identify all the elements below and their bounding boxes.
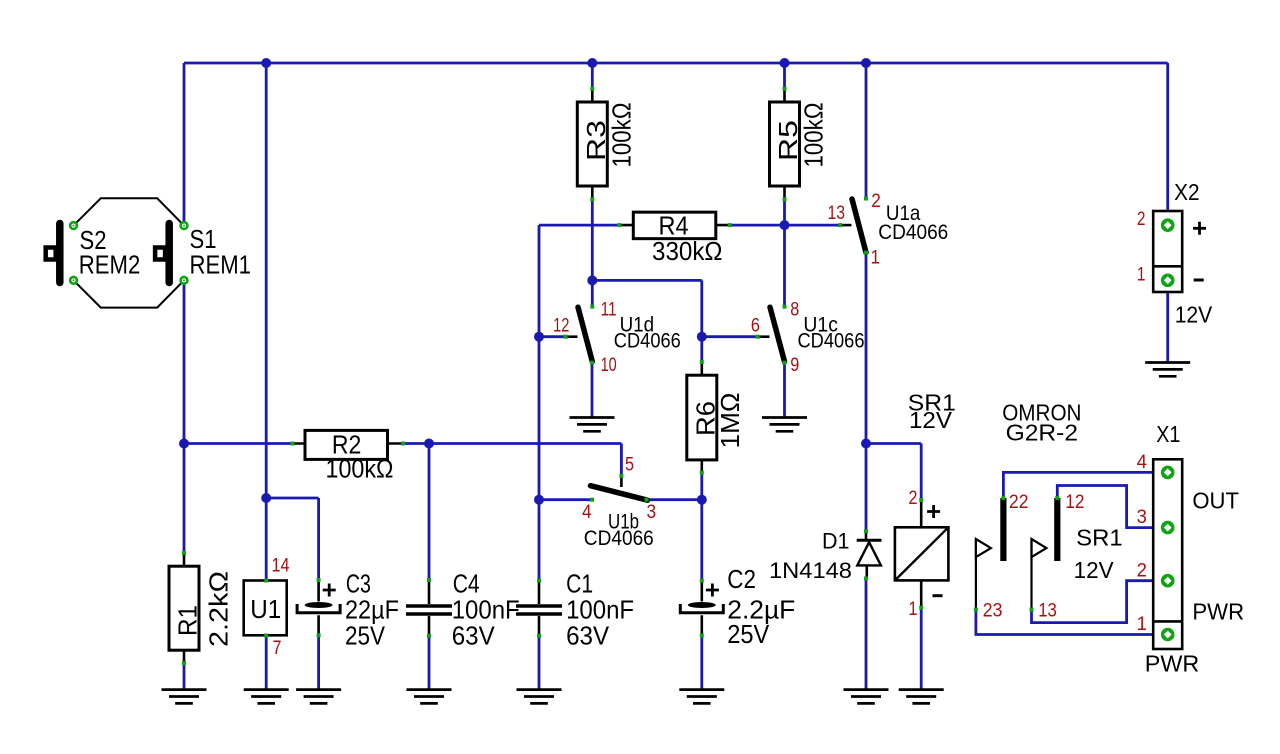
resistor R2 body [305,430,388,459]
resistor R3 body [577,102,607,186]
pin X1.1 [1161,628,1175,642]
polarity minus SR1 [933,594,943,597]
connector X2 body [1153,211,1182,292]
svg-text:4: 4 [582,502,592,523]
svg-text:100kΩ: 100kΩ [799,103,829,168]
svg-text:12V: 12V [909,407,953,433]
svg-text:1MΩ: 1MΩ [715,393,745,449]
pin R4.2 [728,223,732,227]
svg-text:CD4066: CD4066 [614,329,681,353]
svg-text:23: 23 [983,601,1003,622]
svg-text:REM2: REM2 [79,250,141,280]
switch S2 actuator [56,224,64,283]
pin U1b.3 mark [645,498,649,502]
polarity minus X2 [1194,279,1204,282]
node bus-U1a junction [861,58,871,68]
node R6-top junction [697,332,707,342]
node R2-left junction [179,439,189,449]
ground C2 [679,690,724,704]
wire relay pole 13 to X1 pin2 [1032,581,1166,623]
pin D1.A mark [864,576,868,580]
pin X1.2 [1161,574,1175,588]
svg-text:330kΩ: 330kΩ [652,236,723,266]
diode D1 [857,539,882,542]
pin R5.1 [783,87,787,91]
resistor R6 body [687,375,717,460]
pin U1d.10 mark [590,361,594,365]
svg-text:25V: 25V [727,619,770,649]
svg-text:3: 3 [647,502,657,523]
wire relay contact 22 to X1 pin4 [1003,472,1165,498]
wire relay pole 23 to X1 pin1 [976,610,1165,635]
pin SR1.1 mark [919,606,923,610]
pin U1d.12 mark [564,335,568,339]
analog switch U1b [591,486,648,501]
wire R4 row from C1 column [539,225,619,580]
pin C2.+ [700,579,704,583]
svg-text:X2: X2 [1174,179,1199,205]
wire C3 to ground [317,635,320,690]
svg-text:1: 1 [909,599,918,620]
node R6/C2 junction [697,495,707,505]
svg-text:CD4066: CD4066 [584,526,654,550]
wire U1c pin9 to ground [783,363,786,418]
svg-text:11: 11 [601,299,617,320]
wire C1 to ground [538,636,541,690]
svg-text:12V: 12V [1074,557,1115,583]
svg-text:CD4066: CD4066 [878,220,948,244]
pin R1.1 [182,551,186,555]
pin C4.1 [427,578,431,582]
pin U1c.9 mark [783,361,787,365]
svg-text:25V: 25V [345,621,386,651]
svg-text:2: 2 [871,191,881,212]
wire X2 pin1 to ground [1166,280,1169,362]
ground SR1 [899,690,944,704]
wire R4 right to R5 bottom and U1a pin13 [730,199,841,306]
relay pole 23 [976,539,991,557]
svg-text:63V: 63V [452,621,496,651]
svg-text:CD4066: CD4066 [798,329,865,353]
svg-text:12: 12 [1065,492,1084,513]
wire U1b pin3 to R6/C2 column [647,473,702,581]
pin C4.2 [427,634,431,638]
node C3/U1 junction [261,493,271,503]
ground R1 [162,690,207,704]
ground D1 [844,690,889,704]
pin U1b.4 mark [590,498,594,502]
svg-text:100kΩ: 100kΩ [326,454,394,484]
pin R5.2 [783,197,787,201]
relay coil SR1 [895,527,949,580]
pin U1a.13 mark [838,223,842,227]
svg-text:2.2kΩ: 2.2kΩ [204,571,234,647]
svg-text:10: 10 [601,355,617,376]
svg-text:SR1: SR1 [1076,525,1123,551]
svg-text:14: 14 [272,556,290,577]
node bus-R3 junction [587,58,597,68]
wire S1 pin1 to bus [183,63,186,226]
pin U1.7 [264,634,268,638]
svg-text:13: 13 [1038,601,1057,622]
resistor R5 body [770,102,800,186]
ground X2 [1145,363,1190,377]
wire D1 to ground [865,578,868,690]
resistor R4 body [633,212,716,239]
pin X2.2 [1161,218,1175,232]
pin D1.C mark [864,529,868,533]
wire R3 bottom down and across to R6 column [592,199,702,362]
svg-text:X1: X1 [1156,421,1180,447]
pin R3.2 [590,197,594,201]
svg-text:2: 2 [909,488,918,509]
svg-text:G2R-2: G2R-2 [1006,420,1078,446]
polarity plus C3 [323,584,336,597]
analog switch U1a [852,199,866,252]
pin X1.4 [1161,466,1175,480]
pin X2.1 [1161,274,1175,288]
wire bus to U1a pin2 [865,63,868,199]
svg-text:REM1: REM1 [190,250,252,280]
relay contact bar 12 [1054,498,1060,561]
wire SR1 pin1 to ground [920,608,923,690]
pin U1d.11 mark [590,305,594,309]
svg-text:100kΩ: 100kΩ [607,103,637,168]
capacitor C4 body [406,606,452,614]
wire R1 to ground [183,663,186,690]
svg-text:9: 9 [790,355,799,376]
svg-text:6: 6 [751,316,760,337]
svg-text:R1: R1 [173,605,203,636]
pin S2.1 [70,222,77,229]
resistor R1 body [169,566,199,650]
pin C2.- [700,634,704,638]
capacitor C2 body [688,602,716,608]
svg-text:12V: 12V [1175,301,1213,327]
svg-text:22: 22 [1009,492,1028,513]
svg-text:5: 5 [625,455,634,476]
wire bus to X2 pin2 [1166,63,1169,225]
wire C3/U1 node [266,498,318,581]
switch S2/S1 octagon outline [74,198,185,307]
svg-text:1: 1 [1137,614,1147,635]
ground U1d [570,418,615,432]
node R4/R5 junction [780,220,790,230]
svg-text:7: 7 [273,638,282,659]
svg-text:2: 2 [1137,209,1146,230]
pin C1.1 [537,579,541,583]
switch S1 actuator [165,224,173,283]
svg-text:2: 2 [1137,561,1147,582]
wire C4 to ground [428,636,431,690]
pin 23 mark [974,608,978,612]
wire U1d pin10 to ground [591,363,594,418]
pin R2.1 [291,442,295,446]
pin R4.1 [617,223,621,227]
pin U1b.5 mark [619,474,623,478]
pin SR1.2 mark [919,498,923,502]
svg-text:63V: 63V [566,621,610,651]
capacitor C3 body [305,602,333,608]
node C1/U1b junction [534,495,544,505]
polarity plus C2 [706,584,719,597]
relay contact bar 22 [1000,498,1006,561]
wire U1 pin7 to ground [265,636,268,691]
wire top supply bus [184,62,1168,65]
pin U1c.8 mark [783,305,787,309]
svg-text:1: 1 [871,248,881,269]
ground C4 [407,690,452,704]
relay pole 13 [1032,539,1047,557]
svg-text:PWR: PWR [1145,650,1200,676]
wire U1c pin6 stub [702,335,758,338]
ground U1 [244,690,289,704]
pin S1.1 [181,222,188,229]
ground U1c [762,418,807,432]
pin U1a.2 mark [864,197,868,201]
wire bus to R5 [783,63,786,89]
pin 12 mark [1055,496,1059,500]
pin 22 mark [1001,496,1005,500]
pin R6.1 [700,360,704,364]
wire S1 pin2 down to R2 row and R1 [184,280,293,553]
ground C3 [296,690,341,704]
polarity plus X2 [1193,222,1206,235]
node bus-C3 junction [261,58,271,68]
pin C1.2 [537,634,541,638]
svg-text:U1: U1 [250,594,281,624]
pin R3.1 [590,87,594,91]
wire R2 right to C4 and U1b pin5 [403,444,621,581]
svg-text:1: 1 [1137,264,1146,285]
svg-text:C2: C2 [727,564,756,594]
pin S1.2 [181,277,188,284]
wire U1a pin1 down to D1 and SR1 coil [866,253,921,532]
svg-text:D1: D1 [822,529,850,554]
node bus-R5 junction [780,58,790,68]
IC U1 power symbol [244,581,287,636]
pin U1c.6 mark [756,335,760,339]
svg-text:12: 12 [553,316,569,337]
pin X1.3 [1161,521,1175,535]
svg-text:OUT: OUT [1192,488,1239,514]
pin C3.- [317,633,321,637]
pin R6.2 [700,471,704,475]
svg-text:3: 3 [1137,507,1147,528]
pin C3.+ [317,578,321,582]
node U1d pin12 junction [534,332,544,342]
node U1d pin11 junction [587,275,597,285]
wire bus branch to C3/U1 column [265,63,268,498]
polarity plus SR1 [927,505,940,518]
wire C2 to ground [700,636,703,691]
connector X1 body [1153,459,1182,649]
svg-text:13: 13 [828,203,846,224]
pin R1.2 [182,661,186,665]
pin R2.2 [401,442,405,446]
wire relay contact 12 to X1 pin3 [1057,486,1165,528]
pin 13 mark [1030,608,1034,612]
svg-text:1N4148: 1N4148 [769,558,852,583]
pin S2.2 [70,277,77,284]
svg-text:PWR: PWR [1192,599,1244,625]
svg-text:4: 4 [1137,452,1148,473]
wire bus to R3 [591,63,594,89]
ground C1 [517,690,562,704]
svg-text:8: 8 [790,299,799,320]
pin U1a.1 mark [864,251,868,255]
analog switch U1d [578,307,592,361]
analog switch U1c [770,307,785,361]
node D1/SR1 junction [861,439,871,449]
pin U1.14 [264,579,268,583]
capacitor C1 body [516,606,562,614]
node R2-right junction [424,439,434,449]
